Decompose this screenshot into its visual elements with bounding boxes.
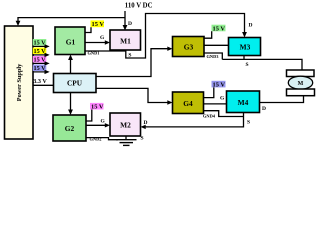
ground <box>116 139 137 141</box>
wire G1 gate to M1 <box>85 42 108 44</box>
MOSFET M2 <box>110 113 141 136</box>
wire GND1 from G1 to M1 source <box>85 50 126 52</box>
svg-text:G4: G4 <box>183 99 193 108</box>
wire M2 source to ground <box>125 136 127 140</box>
wire 15V elbow into G3 <box>204 31 212 38</box>
wire M1 source riser to M3 drain <box>126 14 245 59</box>
svg-text:Power Supply: Power Supply <box>16 63 23 101</box>
svg-text:D: D <box>128 21 132 27</box>
svg-text:G: G <box>100 35 105 41</box>
svg-text:M3: M3 <box>240 42 251 51</box>
wire 15V elbow into G4 <box>204 87 214 97</box>
gate driver G1 <box>55 27 85 55</box>
svg-text:S: S <box>246 62 249 68</box>
svg-text:15 V: 15 V <box>34 48 47 55</box>
wire 15V arrow 2 <box>33 54 47 56</box>
svg-text:G3: G3 <box>184 42 194 51</box>
svg-text:GND3: GND3 <box>207 54 220 59</box>
label 15V violet (to G4) <box>33 65 47 72</box>
svg-text:110 V DC: 110 V DC <box>125 3 153 10</box>
wire G3 gate to M3 <box>204 44 229 46</box>
label 15V green at G3 <box>212 25 226 32</box>
MOSFET M1 <box>110 30 141 50</box>
wire 3.3V to CPU <box>33 84 54 86</box>
svg-text:G: G <box>220 96 225 102</box>
wire GND2 from G2 to ground <box>86 138 118 140</box>
motor M <box>288 76 312 89</box>
svg-text:15 V: 15 V <box>34 39 47 46</box>
svg-text:M1: M1 <box>120 36 131 45</box>
svg-text:15 V: 15 V <box>92 21 105 28</box>
svg-text:15 V: 15 V <box>91 104 104 111</box>
gate driver G4 <box>173 92 204 114</box>
wire CPU to G3 <box>96 49 170 77</box>
svg-text:D: D <box>249 22 253 28</box>
svg-text:G: G <box>101 119 106 125</box>
svg-text:CPU: CPU <box>67 79 83 88</box>
svg-text:G1: G1 <box>66 37 76 46</box>
svg-text:S: S <box>141 136 144 142</box>
label 15V magenta at G2 <box>90 103 104 110</box>
svg-text:M2: M2 <box>120 120 131 129</box>
wire CPU to G4 <box>96 88 170 102</box>
wire G2 gate to M2 <box>86 124 108 126</box>
svg-text:G2: G2 <box>65 124 75 133</box>
wire G4 gate to M4 <box>204 103 227 105</box>
label 15V yellow (to G1) <box>33 48 47 55</box>
wire 15V arrow 4 <box>33 71 47 73</box>
power supply <box>5 26 34 139</box>
wire 15V arrow 3 <box>33 62 47 64</box>
label 15V violet at G4 <box>212 81 226 88</box>
label 15V green (to G3) <box>33 39 47 46</box>
label 15V magenta (to G2) <box>33 56 47 63</box>
svg-text:M4: M4 <box>238 98 249 107</box>
label 15V yellow at G1 <box>91 20 105 27</box>
svg-text:15 V: 15 V <box>213 25 226 32</box>
MOSFET M3 <box>229 38 261 56</box>
svg-text:S: S <box>247 120 250 126</box>
svg-text:3.3 V: 3.3 V <box>33 78 47 85</box>
motor brush top <box>287 70 315 77</box>
motor brush bottom <box>287 89 315 96</box>
wire CPU to G2 <box>70 93 72 113</box>
svg-text:M: M <box>298 81 304 87</box>
wire 15V elbow into G2 <box>86 110 92 122</box>
wire 15V elbow into G1 <box>85 27 91 32</box>
wire 15V arrow 1 <box>33 45 47 47</box>
wire 110V DC branch to power supply <box>18 18 125 24</box>
wire M4 source to M2 drain <box>143 113 244 127</box>
gate driver G2 <box>53 115 86 141</box>
CPU <box>54 74 97 93</box>
MOSFET M4 <box>227 91 260 113</box>
wire motor to M4 drain <box>260 96 304 103</box>
wire CPU to G1 <box>70 57 72 74</box>
svg-text:15 V: 15 V <box>34 56 47 63</box>
wire GND4 from G4 to M4 source <box>204 111 244 117</box>
svg-text:D: D <box>262 106 266 112</box>
svg-text:GND4: GND4 <box>203 113 216 118</box>
wire 110V DC vertical into M1 drain <box>124 11 126 28</box>
wire GND3 from G3 to M3 source <box>204 53 222 59</box>
svg-text:15 V: 15 V <box>34 65 47 72</box>
gate driver G3 <box>173 37 205 57</box>
wire M3 source to motor <box>222 56 244 60</box>
